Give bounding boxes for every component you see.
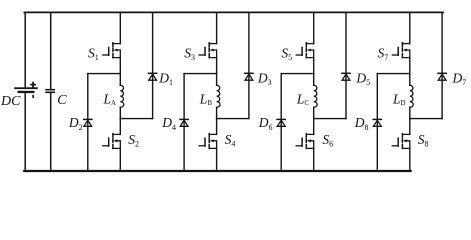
svg-text:LD: LD [392, 92, 406, 108]
wire node B to S8 drain [409, 119, 411, 135]
wire D4 branch [183, 74, 185, 171]
diode D8 [373, 119, 381, 126]
wire S7 drain from top bus [409, 12, 411, 43]
svg-text:D3: D3 [257, 71, 272, 88]
wire node A to coil [313, 74, 315, 86]
svg-text:S7: S7 [378, 45, 389, 62]
diode D5 [342, 73, 350, 80]
diode D7 [438, 73, 446, 80]
wire node A to coil [119, 74, 121, 86]
svg-text:D7: D7 [452, 71, 467, 88]
wire S3 source to node A [216, 58, 218, 74]
svg-text:DC: DC [0, 94, 21, 109]
wire node B to S2 drain [119, 119, 121, 135]
wire coil to node B [216, 107, 218, 118]
capacitor C bottom plate [45, 92, 55, 93]
svg-text:D4: D4 [161, 115, 176, 132]
wire coil to node B [313, 107, 315, 118]
transistor S6 [296, 134, 314, 149]
wire node B to S6 drain [313, 119, 315, 135]
svg-text:LB: LB [199, 92, 213, 108]
diode D6 [277, 119, 285, 126]
battery minus tick [32, 95, 34, 98]
wire D8 branch [376, 74, 378, 171]
wire capacitor branch lower [50, 93, 52, 171]
wire left branch upper [24, 12, 26, 87]
svg-text:S5: S5 [281, 45, 292, 62]
node B horizontal wire cell D [410, 118, 442, 120]
svg-text:S6: S6 [322, 132, 333, 149]
wire S5 source to node A [313, 58, 315, 74]
inductor LB coil [217, 85, 220, 107]
node A horizontal wire cell D [377, 73, 410, 75]
capacitor C top plate [45, 89, 55, 90]
wire D2 branch [87, 74, 89, 171]
wire S2 source to bottom bus [119, 148, 121, 171]
svg-text:LC: LC [296, 92, 310, 108]
node B horizontal wire cell B [217, 118, 249, 120]
wire S1 drain from top bus [119, 12, 121, 43]
wire D1 branch [152, 12, 154, 118]
svg-text:D5: D5 [355, 71, 370, 88]
transistor S2 [103, 134, 121, 149]
svg-text:C: C [57, 93, 67, 108]
wire D3 branch [248, 12, 250, 118]
diode D3 [245, 73, 253, 80]
node B horizontal wire cell C [314, 118, 346, 120]
svg-text:S1: S1 [88, 45, 99, 62]
svg-text:S4: S4 [225, 132, 236, 149]
diode D4 [180, 119, 188, 126]
battery plus marker [31, 83, 35, 87]
diode D1 [149, 73, 157, 80]
wire S5 drain from top bus [313, 12, 315, 43]
battery DC short plate [18, 91, 35, 93]
top bus wire [24, 11, 443, 13]
transistor S5 [296, 43, 314, 58]
inductor LD coil [410, 85, 413, 107]
wire S6 source to bottom bus [313, 148, 315, 171]
wire D5 branch [345, 12, 347, 118]
transistor S8 [392, 134, 410, 149]
svg-text:D2: D2 [68, 115, 83, 132]
node A horizontal wire [88, 73, 121, 75]
diode D2 [84, 119, 92, 126]
wire S1 source to node A [119, 58, 121, 74]
wire node A to coil [409, 74, 411, 86]
transistor S4 [199, 134, 217, 149]
wire node B to S4 drain [216, 119, 218, 135]
transistor S3 [199, 43, 217, 58]
svg-text:LA: LA [103, 92, 117, 108]
svg-text:D8: D8 [354, 115, 369, 132]
wire coil to node B [409, 107, 411, 118]
wire S7 source to node A [409, 58, 411, 74]
wire capacitor branch upper [50, 12, 52, 89]
wire left branch lower [24, 93, 26, 171]
wire D7 branch [441, 12, 443, 118]
capacitor C plate gap shading [45, 90, 55, 92]
svg-text:D1: D1 [158, 71, 173, 88]
svg-text:S8: S8 [418, 132, 429, 149]
inductor LC coil [314, 85, 317, 107]
wire S4 source to bottom bus [216, 148, 218, 171]
bottom bus wire [24, 170, 410, 172]
inductor LA coil [120, 85, 123, 107]
node A horizontal wire cell B [184, 73, 217, 75]
battery DC long plate [14, 87, 38, 89]
wire S3 drain from top bus [216, 12, 218, 43]
wire node A to coil [216, 74, 218, 86]
wire S8 source to bottom bus [409, 148, 411, 171]
wire coil to node B [119, 107, 121, 118]
wire D6 branch [280, 74, 282, 171]
svg-text:S3: S3 [184, 45, 195, 62]
node B horizontal wire [120, 118, 152, 120]
node A horizontal wire cell C [281, 73, 314, 75]
svg-text:D6: D6 [258, 115, 273, 132]
svg-text:S2: S2 [128, 132, 139, 149]
transistor S7 [392, 43, 410, 58]
transistor S1 [103, 43, 121, 58]
